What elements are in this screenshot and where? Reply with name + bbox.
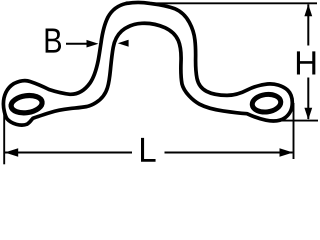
H arrowhead down xyxy=(304,108,312,120)
right eyelet hole xyxy=(251,93,282,114)
B arrowhead left xyxy=(118,40,129,47)
H bottom extension line xyxy=(282,120,318,122)
L arrowhead right xyxy=(280,148,294,156)
B leader line xyxy=(66,43,88,45)
label B xyxy=(46,29,61,53)
H arrowhead up xyxy=(304,4,312,16)
B arrowhead right xyxy=(87,40,99,48)
L arrowhead left xyxy=(5,148,19,156)
H dimension line lower xyxy=(307,78,309,120)
L left extension line xyxy=(3,107,5,164)
left eyelet hole xyxy=(10,94,43,115)
L dimension line right xyxy=(165,152,293,154)
H dimension line upper xyxy=(307,4,309,45)
label L xyxy=(141,138,156,162)
L right extension line xyxy=(293,103,295,159)
saddle outline xyxy=(3,3,292,126)
H top extension line xyxy=(145,2,317,4)
L dimension line left xyxy=(5,152,132,154)
label H xyxy=(297,51,315,74)
